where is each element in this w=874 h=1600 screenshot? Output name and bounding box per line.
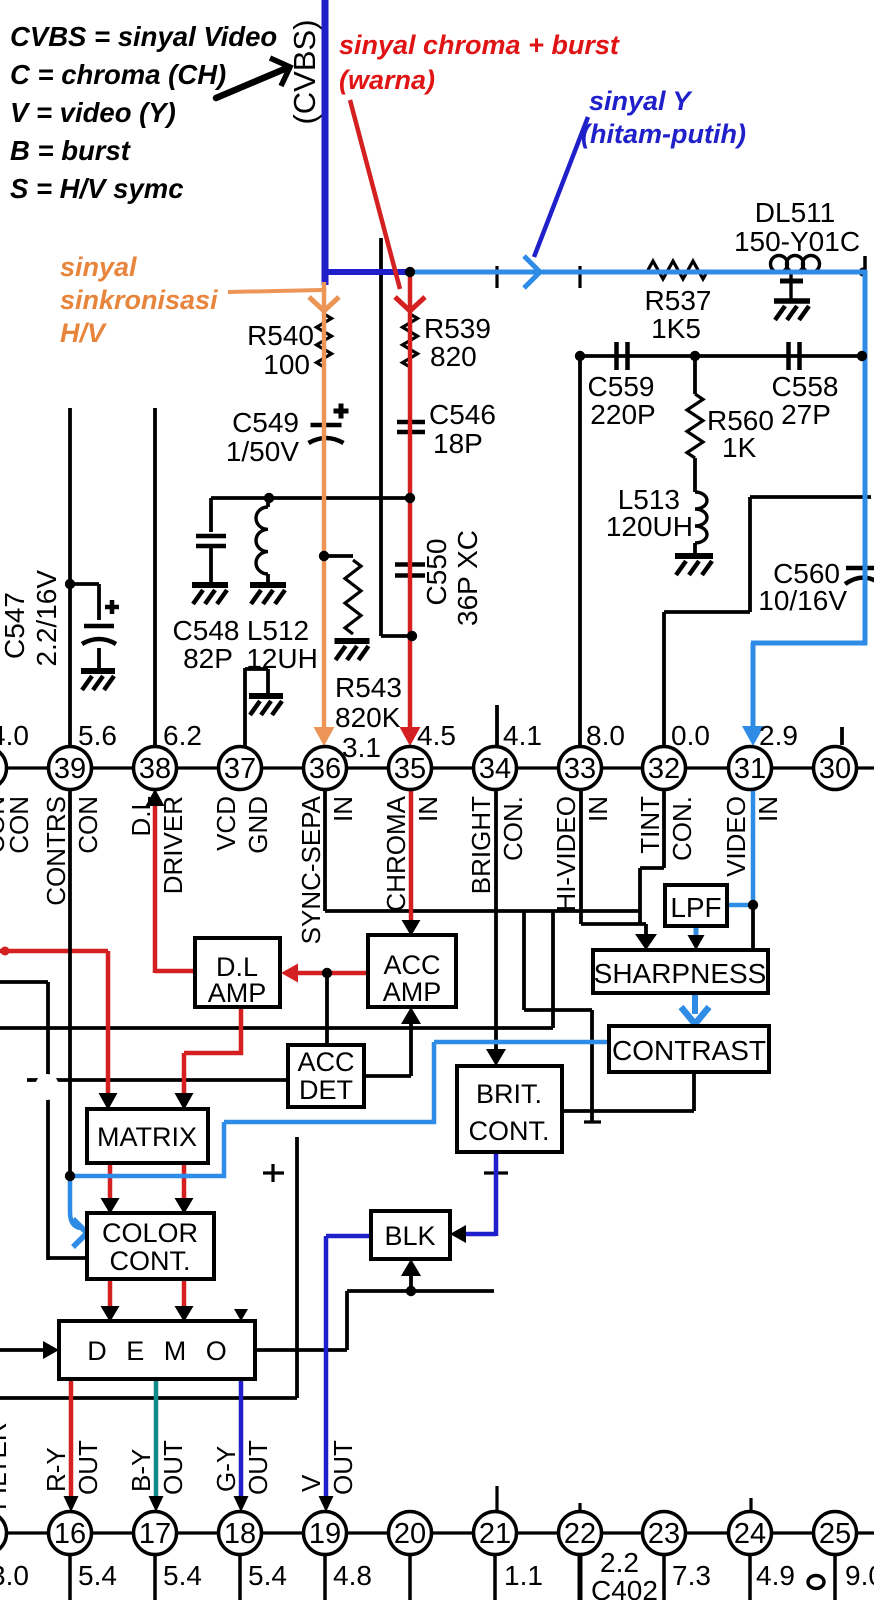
svg-text:82P: 82P bbox=[183, 643, 233, 674]
junction at 410,272 bbox=[405, 267, 415, 277]
arrow LPF to SHARPNESS bbox=[694, 926, 699, 938]
wire dark blue BLK to pin19 V OUT bbox=[326, 1234, 371, 1239]
blue diagonal annotation line bbox=[534, 117, 588, 257]
ground L513 bbox=[675, 553, 713, 559]
svg-text:31: 31 bbox=[734, 753, 766, 785]
svg-text:100: 100 bbox=[263, 349, 310, 380]
svg-text:C = chroma (CH): C = chroma (CH) bbox=[10, 59, 226, 90]
tick above pin30 bbox=[840, 727, 844, 745]
wire pin39 contrs column lower bbox=[68, 789, 72, 1176]
svg-text:MATRIX: MATRIX bbox=[97, 1122, 197, 1152]
svg-text:36P XC: 36P XC bbox=[452, 530, 483, 626]
svg-text:GND: GND bbox=[243, 796, 273, 854]
arrowhead DEMO top small bbox=[234, 1309, 248, 1321]
tick above pin34 bbox=[495, 705, 499, 747]
wire vertical x592 dead-end bbox=[590, 1010, 594, 1122]
inductor L512 bbox=[266, 498, 270, 507]
svg-text:30: 30 bbox=[819, 753, 851, 785]
svg-text:820K: 820K bbox=[335, 702, 401, 733]
tick at Y-line right corner bbox=[863, 256, 867, 270]
svg-text:19: 19 bbox=[309, 1518, 341, 1550]
wire long horizontal bus y911 bbox=[325, 909, 640, 913]
svg-text:4.0: 4.0 bbox=[0, 720, 29, 751]
junction at 410,498 bbox=[405, 493, 415, 503]
svg-text:DL511: DL511 bbox=[755, 197, 835, 228]
wire red ACC AMP to D.L AMP bbox=[296, 971, 368, 976]
junction at 324,556 bbox=[319, 551, 329, 561]
wire sync orange bbox=[228, 290, 322, 292]
wire red D.L AMP down to MATRIX bbox=[239, 1007, 244, 1055]
svg-text:2.2/16V: 2.2/16V bbox=[31, 570, 62, 667]
svg-text:1K5: 1K5 bbox=[651, 313, 701, 344]
wire below pin 23 bbox=[662, 1554, 666, 1600]
svg-text:C549: C549 bbox=[232, 407, 299, 438]
block ACC AMP bbox=[368, 935, 456, 1007]
wire dark blue BRIT.CONT to BLK bbox=[494, 1152, 499, 1236]
wire DEMO right path to BLK junction bbox=[255, 1348, 347, 1352]
svg-text:CONT.: CONT. bbox=[110, 1246, 191, 1276]
wire left edge y982 to x48 column bbox=[0, 980, 48, 984]
block BRIT. CONT. bbox=[457, 1066, 562, 1152]
pin 18 bbox=[219, 1512, 262, 1555]
svg-text:16: 16 bbox=[54, 1518, 86, 1550]
black annotation arrow to CVBS bbox=[216, 68, 287, 98]
wire red from left edge to MATRIX bbox=[0, 949, 108, 954]
svg-text:IN: IN bbox=[583, 796, 613, 822]
svg-text:5.4: 5.4 bbox=[248, 1560, 287, 1591]
svg-text:SYNC-SEPA: SYNC-SEPA bbox=[296, 795, 326, 944]
svg-text:2.9: 2.9 bbox=[759, 720, 798, 751]
pin 17 bbox=[134, 1512, 177, 1555]
svg-text:7.3: 7.3 bbox=[672, 1560, 711, 1591]
pin 37 bbox=[219, 747, 262, 790]
wire horizontal y1396 bbox=[0, 1396, 297, 1400]
svg-text:CONTRS: CONTRS bbox=[41, 796, 71, 906]
arrow into DEMO left bbox=[0, 1348, 46, 1352]
svg-text:5.4: 5.4 bbox=[78, 1560, 117, 1591]
wire Y light blue right vertical bbox=[863, 270, 868, 645]
svg-text:D E M O: D E M O bbox=[87, 1336, 233, 1366]
svg-text:CHROMA: CHROMA bbox=[381, 795, 411, 911]
wire pin33 column bbox=[578, 356, 582, 748]
capacitor C558 bbox=[786, 342, 791, 370]
wire pin37 VCD GND jog bbox=[243, 668, 247, 748]
svg-text:9.0: 9.0 bbox=[845, 1560, 874, 1591]
wire below pin 21 bbox=[493, 1554, 497, 1600]
arrow into SHARPNESS from hi-video/tint bbox=[644, 924, 648, 936]
svg-text:DRIVER: DRIVER bbox=[158, 796, 188, 894]
tick above pin21 bbox=[495, 1486, 498, 1512]
small ellipse mark bbox=[808, 1576, 824, 1589]
block ACC DET bbox=[288, 1045, 364, 1107]
pin 24 bbox=[729, 1512, 772, 1555]
svg-text:OUT: OUT bbox=[158, 1440, 188, 1495]
svg-text:32: 32 bbox=[648, 753, 680, 785]
svg-text:20: 20 bbox=[394, 1518, 426, 1550]
junction at 862,356 bbox=[857, 351, 867, 361]
pin label B-Y OUT bbox=[126, 1449, 156, 1492]
wire pin32 upper path to right edge bbox=[662, 612, 666, 748]
pin label CHROMA IN bbox=[381, 795, 411, 911]
tick on Y line x497 bbox=[495, 266, 498, 288]
wire pin32 tint down jog bbox=[662, 789, 666, 868]
ground DL511 bbox=[774, 298, 810, 304]
inductor L513 bbox=[695, 492, 707, 543]
svg-text:AMP: AMP bbox=[383, 977, 442, 1007]
svg-text:HI-VIDEO: HI-VIDEO bbox=[551, 796, 581, 912]
svg-text:C402: C402 bbox=[591, 1575, 658, 1600]
svg-text:ACC: ACC bbox=[383, 950, 440, 980]
wire light blue pin31 video down bbox=[751, 789, 756, 906]
svg-text:CON.: CON. bbox=[667, 796, 697, 861]
capacitor C546 bbox=[397, 420, 425, 425]
pin label VIDEO IN bbox=[721, 796, 751, 877]
svg-text:IN: IN bbox=[753, 796, 783, 822]
svg-text:R-Y: R-Y bbox=[41, 1447, 71, 1492]
ground C547 bbox=[81, 668, 115, 674]
arrow SHARPNESS to CONTRAST bbox=[692, 993, 698, 1014]
pin 19 bbox=[304, 1512, 347, 1555]
wire dark blue horizontal to chroma node bbox=[322, 269, 412, 275]
svg-text:ACC: ACC bbox=[297, 1047, 354, 1077]
pin label partial FILTER at left edge bbox=[0, 1422, 12, 1510]
label (CVBS) rotated bbox=[287, 19, 322, 124]
pin 15 partial bbox=[0, 1512, 7, 1555]
svg-text:C558: C558 bbox=[772, 371, 839, 402]
pin 21 bbox=[474, 1512, 517, 1555]
pin label R-Y OUT bbox=[41, 1447, 71, 1492]
wire red R-Y out bbox=[69, 1379, 74, 1496]
svg-text:12UH: 12UH bbox=[246, 643, 318, 674]
wire below pin 16 bbox=[68, 1554, 72, 1600]
wire Y light blue elbow to pin31 bbox=[751, 641, 867, 646]
svg-text:10/16V: 10/16V bbox=[758, 585, 847, 616]
svg-text:18P: 18P bbox=[433, 428, 483, 459]
svg-text:OUT: OUT bbox=[243, 1440, 273, 1495]
white smudge artifact bbox=[35, 1074, 59, 1100]
svg-text:5.6: 5.6 bbox=[78, 720, 117, 751]
svg-text:OUT: OUT bbox=[328, 1440, 358, 1495]
wire vertical x524 from bus bbox=[522, 911, 526, 1010]
svg-text:CON: CON bbox=[73, 796, 103, 854]
wire below pin 18 bbox=[238, 1554, 242, 1600]
svg-text:4.8: 4.8 bbox=[333, 1560, 372, 1591]
svg-text:1K: 1K bbox=[722, 432, 757, 463]
svg-text:(hitam-putih): (hitam-putih) bbox=[581, 119, 746, 149]
svg-text:(CVBS): (CVBS) bbox=[287, 19, 322, 124]
svg-text:BRIT.: BRIT. bbox=[476, 1079, 542, 1109]
pin label BRIGHT CON. bbox=[466, 796, 496, 894]
svg-text:D.L: D.L bbox=[126, 796, 156, 836]
svg-text:OUT: OUT bbox=[73, 1440, 103, 1495]
wire chroma red overlay bbox=[408, 273, 413, 730]
node C547 tap on pin39 wire bbox=[70, 582, 99, 586]
red diagonal annotation line bbox=[350, 100, 400, 289]
block DEMO bbox=[59, 1321, 255, 1379]
wire IC bottom pin row line bbox=[0, 1531, 874, 1534]
pin 39 bbox=[49, 747, 92, 790]
svg-text:220P: 220P bbox=[590, 399, 655, 430]
svg-text:25: 25 bbox=[819, 1518, 851, 1550]
svg-text:34: 34 bbox=[479, 753, 511, 785]
pin label SYNC-SEPA IN bbox=[296, 795, 326, 944]
wire below pin 24 bbox=[748, 1554, 752, 1600]
svg-text:C550: C550 bbox=[421, 539, 452, 606]
svg-text:(warna): (warna) bbox=[339, 65, 435, 95]
pin label partial CON at left edge bbox=[0, 796, 10, 854]
wire below pin 22 bbox=[578, 1554, 583, 1600]
svg-text:38: 38 bbox=[139, 753, 171, 785]
svg-text:4.5: 4.5 bbox=[417, 720, 456, 751]
wire pin39 column from top bbox=[68, 408, 72, 748]
pin 36 bbox=[304, 747, 347, 790]
pin label D.L DRIVER bbox=[126, 796, 156, 836]
wire IC top pin row line bbox=[0, 766, 874, 769]
resistor R540 zigzag on sync line bbox=[317, 314, 332, 367]
svg-text:R539: R539 bbox=[424, 313, 491, 344]
junction at 269,498 bbox=[264, 493, 274, 503]
junction at 70,1176 bbox=[65, 1171, 75, 1181]
pin 16 bbox=[49, 1512, 92, 1555]
svg-text:BLK: BLK bbox=[384, 1221, 435, 1251]
resistor R560 bbox=[687, 394, 703, 458]
pin 20 bbox=[389, 1512, 432, 1555]
svg-text:4.9: 4.9 bbox=[756, 1560, 795, 1591]
svg-text:sinkronisasi: sinkronisasi bbox=[60, 285, 218, 315]
wire light blue CONTRAST to COLOR CONT bbox=[434, 1040, 609, 1045]
capacitor C548 bbox=[209, 498, 213, 532]
capacitor C560 at right edge bbox=[846, 566, 874, 571]
resistor R539 zigzag on chroma line bbox=[403, 314, 418, 367]
svg-text:33: 33 bbox=[564, 753, 596, 785]
svg-text:0.0: 0.0 bbox=[671, 720, 710, 751]
svg-text:sinyal Y: sinyal Y bbox=[589, 86, 694, 116]
svg-text:G-Y: G-Y bbox=[211, 1446, 241, 1492]
svg-text:820: 820 bbox=[430, 341, 477, 372]
svg-text:6.2: 6.2 bbox=[163, 720, 202, 751]
svg-text:sinyal chroma + burst: sinyal chroma + burst bbox=[339, 30, 620, 60]
block MATRIX bbox=[87, 1109, 208, 1163]
resistor R543 branch bbox=[324, 554, 353, 558]
block CONTRAST bbox=[609, 1026, 769, 1072]
chevron on Y line bbox=[524, 256, 540, 288]
svg-text:V = video (Y): V = video (Y) bbox=[10, 97, 176, 128]
svg-text:CONT.: CONT. bbox=[469, 1116, 550, 1146]
wire red chroma pin35 to ACC AMP bbox=[409, 789, 414, 924]
wire ACC DET right to ACC AMP bbox=[364, 1074, 411, 1078]
svg-text:3.0: 3.0 bbox=[0, 1560, 29, 1591]
wire horizontal y356 C559/C558 net bbox=[580, 354, 864, 358]
tick above pin22 bbox=[578, 1503, 581, 1512]
svg-text:5.4: 5.4 bbox=[163, 1560, 202, 1591]
wire ACC DET top link bbox=[325, 973, 329, 1045]
block D.L AMP bbox=[195, 938, 280, 1007]
tick on BRIT blue wire bbox=[484, 1171, 508, 1174]
ground L512 bbox=[250, 582, 286, 588]
svg-text:4.1: 4.1 bbox=[503, 720, 542, 751]
svg-text:C548: C548 bbox=[173, 615, 240, 646]
pin label CONTRS CON bbox=[41, 796, 71, 906]
wire light blue LPF link bbox=[727, 903, 753, 908]
junction at 412,636 bbox=[407, 631, 417, 641]
svg-text:R540: R540 bbox=[247, 320, 314, 351]
svg-text:22: 22 bbox=[564, 1518, 596, 1550]
tick above pin24 bbox=[749, 1498, 752, 1512]
svg-text:H/V: H/V bbox=[60, 318, 107, 348]
svg-text:CVBS = sinyal Video: CVBS = sinyal Video bbox=[10, 21, 277, 52]
junction at 70,584 bbox=[65, 579, 75, 589]
pin 31 bbox=[729, 747, 772, 790]
wire BLK bottom arrow bbox=[409, 1275, 413, 1291]
wire dark blue G-Y out bbox=[239, 1379, 244, 1496]
svg-text:120UH: 120UH bbox=[606, 511, 693, 542]
block SHARPNESS bbox=[593, 950, 768, 993]
pin label V OUT bbox=[296, 1474, 326, 1492]
wire red D.L driver pin38 to D.L AMP bbox=[153, 804, 158, 973]
svg-text:24: 24 bbox=[734, 1518, 766, 1550]
svg-text:BRIGHT: BRIGHT bbox=[466, 796, 496, 894]
wire pin36 sync-sepa down to bus bbox=[323, 789, 327, 911]
svg-text:150-Y01C: 150-Y01C bbox=[734, 226, 860, 257]
delay line DL511 coil bbox=[771, 256, 788, 273]
ground pin37 bbox=[249, 693, 283, 699]
wire below pin 17 bbox=[153, 1554, 157, 1600]
wire vertical x553 from bus bbox=[551, 911, 555, 1028]
svg-text:LPF: LPF bbox=[670, 892, 721, 923]
pin 23 bbox=[643, 1512, 686, 1555]
svg-text:18: 18 bbox=[224, 1518, 256, 1550]
wire horizontal y1080 to ACC DET bbox=[27, 1078, 288, 1082]
svg-text:R543: R543 bbox=[335, 672, 402, 703]
svg-text:DET: DET bbox=[299, 1075, 353, 1105]
wire Y signal light blue horizontal bbox=[410, 270, 867, 275]
svg-text:23: 23 bbox=[648, 1518, 680, 1550]
wire pin38 column from top bbox=[153, 408, 157, 748]
wire below pin 19 bbox=[323, 1554, 327, 1600]
pin 38 bbox=[134, 747, 177, 790]
wire black vertical x380 crossing Y line bbox=[379, 238, 383, 636]
svg-text:FILTER: FILTER bbox=[0, 1422, 12, 1510]
svg-text:B-Y: B-Y bbox=[126, 1449, 156, 1492]
pin label VCD GND bbox=[211, 796, 241, 851]
svg-text:V: V bbox=[296, 1474, 326, 1492]
wire below pin 25 bbox=[833, 1554, 837, 1600]
svg-text:SHARPNESS: SHARPNESS bbox=[594, 958, 767, 989]
pin 25 bbox=[814, 1512, 857, 1555]
capacitor C547 bbox=[84, 624, 114, 629]
wire below pin 20 bbox=[408, 1554, 412, 1600]
svg-text:2.2: 2.2 bbox=[600, 1547, 639, 1578]
svg-text:AMP: AMP bbox=[208, 978, 267, 1008]
svg-text:CON: CON bbox=[4, 796, 34, 854]
svg-text:L512: L512 bbox=[247, 615, 309, 646]
capacitor C549 polarized bbox=[311, 423, 342, 428]
block BLK bbox=[371, 1211, 450, 1259]
svg-text:1.1: 1.1 bbox=[504, 1560, 543, 1591]
svg-text:8.0: 8.0 bbox=[586, 720, 625, 751]
svg-text:R537: R537 bbox=[645, 285, 712, 316]
junction at 580,356 bbox=[575, 351, 585, 361]
svg-text:35: 35 bbox=[394, 753, 426, 785]
svg-text:B = burst: B = burst bbox=[10, 135, 132, 166]
svg-text:27P: 27P bbox=[781, 399, 831, 430]
svg-text:C546: C546 bbox=[429, 399, 496, 430]
svg-text:IN: IN bbox=[328, 796, 358, 822]
wire pin33 hi-video down bbox=[579, 789, 583, 924]
svg-text:3.1: 3.1 bbox=[342, 732, 381, 763]
svg-text:COLOR: COLOR bbox=[102, 1218, 198, 1248]
junction at 695,356 bbox=[690, 351, 700, 361]
svg-text:17: 17 bbox=[139, 1518, 171, 1550]
wire horizontal y498 C548/L512/chroma net bbox=[211, 496, 411, 500]
pin label G-Y OUT bbox=[211, 1446, 241, 1492]
svg-text:sinyal: sinyal bbox=[60, 252, 137, 282]
pin 40 partial bbox=[0, 747, 7, 790]
svg-text:39: 39 bbox=[54, 753, 86, 785]
pin label HI-VIDEO IN bbox=[551, 796, 581, 912]
svg-text:VIDEO: VIDEO bbox=[721, 796, 751, 877]
wire CVBS input dark blue vertical bbox=[322, 0, 329, 285]
wire LPF junction down to SHARPNESS bbox=[751, 906, 755, 951]
svg-text:VCD: VCD bbox=[211, 796, 241, 851]
capacitor C559 bbox=[614, 342, 619, 370]
svg-text:S = H/V symc: S = H/V symc bbox=[10, 173, 184, 204]
wires red COLOR CONT to DEMO bbox=[108, 1279, 113, 1309]
tick on Y line x580 bbox=[578, 266, 581, 288]
pin 32 bbox=[643, 747, 686, 790]
svg-text:TINT: TINT bbox=[635, 796, 665, 854]
wire jog y1010 bbox=[524, 1008, 592, 1012]
pin 34 bbox=[474, 747, 517, 790]
svg-text:36: 36 bbox=[309, 753, 341, 785]
block COLOR CONT. bbox=[87, 1213, 214, 1279]
ground C548 bbox=[192, 582, 228, 588]
junction at 327,973 bbox=[322, 968, 332, 978]
wire teal B-Y out bbox=[154, 1379, 159, 1496]
resistor R537 on Y line bbox=[648, 261, 708, 279]
wire vertical x297 segment bbox=[295, 1137, 299, 1398]
svg-text:37: 37 bbox=[224, 753, 256, 785]
wire long horizontal bus y1028 bbox=[0, 1026, 553, 1030]
block LPF bbox=[665, 885, 727, 926]
pin 35 bbox=[389, 747, 432, 790]
junction at 753,905 bbox=[748, 900, 758, 910]
junction at 411,1291 bbox=[406, 1286, 416, 1296]
wire CONTRAST bottom to BRIT.CONT bbox=[692, 1072, 696, 1111]
svg-text:IN: IN bbox=[413, 796, 443, 822]
capacitor C550 bbox=[395, 562, 425, 567]
svg-text:CON.: CON. bbox=[498, 796, 528, 861]
pin label TINT CON. bbox=[635, 796, 665, 854]
wires red MATRIX to COLOR CONT bbox=[108, 1163, 113, 1201]
svg-text:1/50V: 1/50V bbox=[226, 436, 299, 467]
svg-text:C559: C559 bbox=[588, 371, 655, 402]
pin 30 bbox=[814, 747, 857, 790]
svg-text:21: 21 bbox=[479, 1518, 511, 1550]
pin 33 bbox=[559, 747, 602, 790]
svg-text:CONTRAST: CONTRAST bbox=[612, 1035, 766, 1066]
wire pin34 bright down to BRIT.CONT bbox=[494, 789, 498, 1051]
ground R543 bbox=[335, 638, 370, 644]
svg-text:C547: C547 bbox=[0, 592, 30, 659]
pin 22 bbox=[559, 1512, 602, 1555]
